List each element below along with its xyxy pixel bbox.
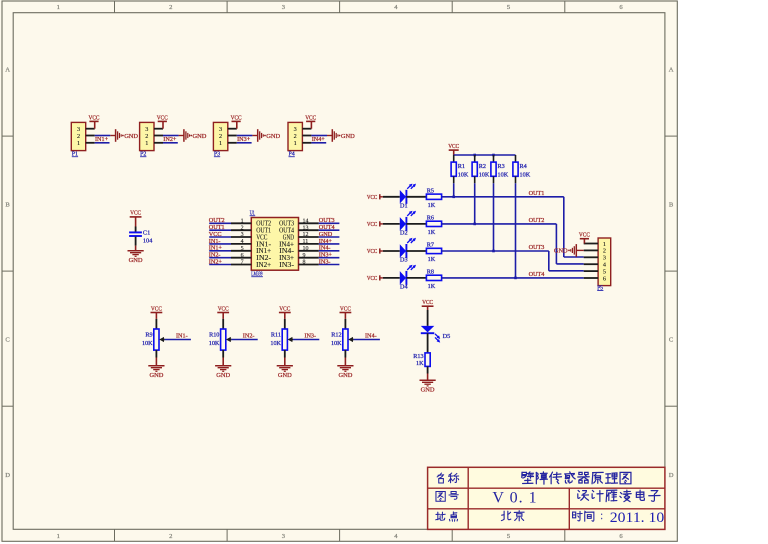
svg-text:OUT1: OUT1 — [529, 190, 545, 197]
wire VCC to R10 — [222, 313, 224, 330]
svg-text:GND: GND — [278, 372, 292, 379]
net label OUT3 — [529, 244, 545, 251]
junction R2 / OUT2 — [473, 223, 476, 226]
wire R13 to GND — [427, 366, 429, 380]
wire pin3 of P1 to VCC — [86, 121, 95, 128]
svg-text:2: 2 — [169, 4, 172, 11]
svg-text:VCC: VCC — [340, 305, 351, 312]
svg-text:VCC: VCC — [305, 114, 316, 121]
svg-text:B: B — [669, 202, 674, 209]
svg-text:3: 3 — [241, 232, 244, 238]
wire VCC rail — [454, 154, 516, 156]
wire VCC to C1 — [135, 217, 137, 232]
svg-text:1: 1 — [294, 140, 297, 147]
svg-text:R11: R11 — [271, 332, 281, 339]
svg-text:VCC: VCC — [367, 275, 377, 282]
wire net IN1- at U1 pin 4 — [209, 243, 231, 245]
net label IN2- — [209, 252, 221, 259]
wire OUT2 vertical to P5 pin4 — [556, 224, 583, 264]
svg-text:VCC: VCC — [422, 299, 433, 306]
svg-text:D: D — [5, 472, 10, 479]
svg-text:GND: GND — [129, 257, 143, 264]
net label IN3+ — [237, 136, 251, 143]
svg-text:IN4+: IN4+ — [312, 136, 326, 143]
power ground at P1 — [116, 129, 139, 142]
svg-text:R1: R1 — [458, 163, 465, 170]
svg-text:R2: R2 — [479, 163, 486, 170]
junction on rail at R3 — [492, 154, 495, 157]
svg-text:R9: R9 — [145, 332, 152, 339]
svg-text:10K: 10K — [142, 340, 153, 347]
wire VCC to D5 — [427, 306, 429, 326]
potentiometer R9 10K — [142, 329, 165, 350]
connector P2 — [140, 122, 154, 157]
svg-text:R6: R6 — [427, 215, 434, 222]
wire OUT4 to P5 pin6 — [583, 277, 585, 279]
svg-text:6: 6 — [241, 253, 244, 259]
svg-text:GND: GND — [216, 372, 230, 379]
svg-text:IN1-: IN1- — [176, 332, 188, 339]
svg-text:IN3-: IN3- — [319, 258, 331, 265]
svg-text:V 0. 1: V 0. 1 — [492, 490, 537, 507]
wire net OUT2 at U1 pin 1 — [209, 222, 231, 224]
connector P5 — [597, 238, 610, 291]
wire OUT1 vertical to P5 pin3 — [564, 197, 584, 257]
svg-text:VCC: VCC — [367, 248, 377, 255]
power VCC at D2 — [367, 221, 383, 228]
ground below C1 — [128, 251, 144, 264]
pin 4 of U1 — [231, 239, 251, 245]
wire net IN2+ at U1 pin 7 — [209, 264, 231, 266]
resistor R6 1K — [426, 215, 441, 236]
wire R12 to GND — [344, 350, 346, 366]
svg-text:2: 2 — [294, 133, 297, 140]
wire D3 to R7 — [406, 250, 426, 252]
svg-text:1K: 1K — [428, 202, 436, 209]
svg-text:2011. 10: 2011. 10 — [610, 510, 665, 526]
svg-text:1: 1 — [77, 140, 80, 147]
resistor R4 10K — [513, 162, 531, 178]
net label OUT1 — [529, 190, 545, 197]
LED D2 — [400, 211, 416, 237]
wire net OUT1 at U1 pin 2 — [209, 229, 231, 231]
svg-text:6: 6 — [603, 275, 606, 282]
svg-text:10K: 10K — [498, 171, 509, 178]
power VCC at D1 — [367, 194, 383, 201]
wire pin1 of P1 net IN1+ — [86, 142, 110, 144]
svg-text:VCC: VCC — [89, 114, 100, 121]
svg-text:C: C — [669, 337, 674, 344]
wire pin2 of P1 to GND — [86, 135, 116, 137]
wire pin2 of P3 to GND — [228, 135, 258, 137]
net label OUT2 — [209, 217, 225, 224]
svg-text:A: A — [669, 67, 674, 74]
pin 14 of U1 — [299, 218, 319, 224]
net label IN4+ — [319, 238, 333, 245]
svg-text:1: 1 — [57, 4, 60, 11]
wire pin1 of P3 net IN3+ — [228, 142, 252, 144]
wire rail to R4 — [515, 155, 517, 162]
power VCC at R9 — [151, 305, 163, 312]
svg-text:IN1+: IN1+ — [95, 136, 109, 143]
wire pin1 of P2 net IN2+ — [154, 142, 178, 144]
wire wiper of R11 net IN3- — [293, 339, 319, 341]
svg-text:GND: GND — [341, 133, 355, 140]
svg-text:GND: GND — [266, 133, 280, 140]
wire net IN4- at U1 pin 10 — [319, 250, 340, 252]
svg-text:1K: 1K — [428, 229, 436, 236]
title row3: 地点 / 北京 / 时间: 2011.10 — [436, 510, 665, 526]
net label IN4- — [319, 245, 331, 252]
svg-text:7: 7 — [241, 260, 244, 266]
svg-text:IN2+: IN2+ — [163, 136, 177, 143]
svg-text:IN3+: IN3+ — [237, 136, 251, 143]
power VCC at D4 — [367, 275, 383, 282]
svg-text:OUT3: OUT3 — [529, 244, 545, 251]
ground below R12 — [337, 366, 353, 379]
pin 1 of P5 — [584, 243, 598, 245]
svg-text:10K: 10K — [270, 340, 281, 347]
resistor R13 1K — [413, 353, 430, 367]
net label IN3- — [319, 258, 331, 265]
wire rail to R1 — [453, 155, 455, 162]
wire VCC to D3 — [383, 250, 400, 252]
power VCC at P3 — [231, 114, 242, 121]
power VCC at P2 — [157, 114, 168, 121]
svg-text:D: D — [669, 472, 674, 479]
svg-text:12: 12 — [303, 232, 309, 238]
wire net IN3+ at U1 pin 9 — [319, 257, 340, 259]
wire D2 to R6 — [406, 223, 426, 225]
title row2: 图号 / V 0.1 / 设计雁凌电子 — [436, 490, 660, 507]
power VCC at D3 — [367, 248, 383, 255]
net label IN1- — [176, 332, 188, 339]
svg-text:2: 2 — [241, 225, 244, 231]
net label IN2- — [243, 332, 255, 339]
svg-text:10K: 10K — [520, 171, 531, 178]
pin 10 of U1 — [299, 246, 319, 252]
ground below R9 — [148, 366, 164, 379]
svg-text:R10: R10 — [209, 332, 219, 339]
power ground at P2 — [184, 129, 207, 142]
wire rail to R3 — [493, 155, 495, 162]
wire R6 to OUT2 — [442, 223, 557, 225]
svg-text:R5: R5 — [427, 188, 434, 195]
pin 7 of U1 — [231, 260, 251, 266]
wire P5 pin2 to GND — [576, 249, 583, 251]
svg-text:IN2+: IN2+ — [256, 261, 271, 269]
net label IN1+ — [209, 245, 223, 252]
net label IN4+ — [312, 136, 326, 143]
ground below R11 — [277, 366, 293, 379]
wire pin2 of P4 to GND — [302, 135, 332, 137]
svg-text:8: 8 — [303, 260, 306, 266]
wire VCC to D1 — [383, 196, 400, 198]
junction on rail at R2 — [473, 154, 476, 157]
connector P1 — [71, 122, 85, 157]
pin 2 of U1 — [231, 225, 251, 231]
wire VCC to R11 — [284, 313, 286, 330]
svg-text:GND: GND — [338, 372, 352, 379]
potentiometer R12 10K — [331, 329, 354, 350]
svg-text:D3: D3 — [400, 257, 408, 264]
junction R1 / OUT1 — [452, 196, 455, 199]
wire R5 to OUT1 — [442, 196, 564, 198]
svg-text:10K: 10K — [209, 340, 220, 347]
resistor R8 1K — [426, 269, 441, 290]
svg-text:1: 1 — [219, 140, 222, 147]
wire R1 to OUT1 — [453, 176, 455, 197]
svg-text:9: 9 — [303, 253, 306, 259]
wire R2 to OUT2 — [474, 176, 476, 224]
svg-text:VCC: VCC — [218, 305, 229, 312]
svg-text:GND: GND — [421, 387, 435, 394]
svg-text:14: 14 — [303, 218, 309, 224]
svg-text:VCC: VCC — [130, 210, 141, 217]
svg-text:104: 104 — [143, 238, 153, 245]
svg-text:C: C — [5, 337, 10, 344]
svg-text:VCC: VCC — [448, 143, 459, 150]
resistor R7 1K — [426, 242, 441, 263]
svg-text:2: 2 — [145, 133, 148, 140]
svg-text:1: 1 — [145, 140, 148, 147]
wire pin3 of P3 to VCC — [228, 121, 237, 128]
wire pin3 of P4 to VCC — [302, 121, 311, 128]
resistor R2 10K — [472, 162, 490, 178]
power VCC at P5 pin1 — [579, 232, 590, 244]
wire pin2 of P2 to GND — [154, 135, 184, 137]
svg-text:10K: 10K — [331, 340, 342, 347]
capacitor C1 104 — [129, 230, 153, 245]
svg-text:D1: D1 — [400, 202, 408, 209]
wire wiper of R12 net IN4- — [354, 339, 380, 341]
pin 2 of P5 — [584, 249, 598, 251]
wire R9 to GND — [155, 350, 157, 366]
pin 8 of U1 — [299, 260, 319, 266]
wire R3 to OUT3 — [493, 176, 495, 251]
net label OUT2 — [529, 217, 545, 224]
resistor R1 10K — [451, 162, 469, 178]
svg-text:IN2-: IN2- — [243, 332, 255, 339]
connector P4 — [288, 122, 302, 157]
wire wiper of R10 net IN2- — [231, 339, 257, 341]
LED D4 — [400, 265, 416, 291]
pin 6 of U1 — [231, 253, 251, 259]
svg-text:VCC: VCC — [231, 114, 242, 121]
svg-text:GND: GND — [124, 133, 138, 140]
svg-text:13: 13 — [303, 225, 309, 231]
net label IN3- — [304, 332, 316, 339]
wire VCC to R9 — [155, 313, 157, 330]
svg-text:IN3-: IN3- — [304, 332, 316, 339]
wire net OUT4 at U1 pin 13 — [319, 229, 340, 231]
svg-text:D2: D2 — [400, 230, 408, 237]
net label IN2+ — [163, 136, 177, 143]
power VCC at D5 — [422, 299, 434, 306]
ground below R10 — [215, 366, 231, 379]
wire rail to R2 — [474, 155, 476, 162]
svg-text:1: 1 — [241, 218, 244, 224]
net label VCC — [209, 231, 222, 238]
svg-text:1K: 1K — [416, 360, 424, 367]
wire OUT3 to P5 pin5 — [549, 251, 584, 271]
svg-text:OUT2: OUT2 — [529, 217, 545, 224]
wire R7 to OUT3 — [442, 250, 549, 252]
power VCC at C1 — [130, 210, 142, 217]
pin 3 of U1 — [231, 232, 251, 238]
potentiometer R11 10K — [270, 329, 293, 350]
svg-text:GND: GND — [149, 372, 163, 379]
pin 6 of P5 — [584, 277, 598, 279]
svg-text:R8: R8 — [427, 269, 434, 276]
svg-text:IN4-: IN4- — [365, 332, 377, 339]
svg-text:B: B — [5, 202, 10, 209]
wire R4 to OUT4 — [515, 176, 517, 278]
net label IN4- — [365, 332, 377, 339]
net label GND — [319, 231, 333, 238]
net label IN2+ — [209, 258, 223, 265]
power VCC above R1-R4 — [448, 143, 459, 155]
svg-text:R7: R7 — [427, 242, 434, 249]
title block frame — [428, 467, 665, 529]
svg-text:R12: R12 — [331, 332, 341, 339]
svg-text:1K: 1K — [428, 256, 436, 263]
wire D1 to R5 — [406, 196, 426, 198]
power VCC at P4 — [305, 114, 316, 121]
wire D5 to R13 — [427, 333, 429, 353]
power ground at P4 — [332, 129, 355, 142]
svg-text:11: 11 — [303, 239, 309, 245]
connector P3 — [213, 122, 227, 157]
power VCC at R12 — [340, 305, 352, 312]
wire VCC to D4 — [383, 277, 400, 279]
power VCC at R10 — [217, 305, 229, 312]
pin 3 of P5 — [584, 256, 598, 258]
svg-text:GND: GND — [554, 248, 568, 255]
pin 12 of U1 — [299, 232, 319, 238]
svg-text:4: 4 — [241, 239, 244, 245]
wire net IN4+ at U1 pin 11 — [319, 243, 340, 245]
wire net IN1+ at U1 pin 5 — [209, 250, 231, 252]
svg-text:10K: 10K — [458, 171, 469, 178]
wire wiper of R9 net IN1- — [165, 339, 191, 341]
svg-text:D5: D5 — [443, 333, 451, 340]
wire net VCC at U1 pin 3 — [209, 236, 231, 238]
pin 11 of U1 — [299, 239, 319, 245]
power ground at P3 — [258, 129, 281, 142]
net label OUT3 — [319, 217, 335, 224]
junction R4 / OUT4 — [514, 277, 517, 280]
svg-text:1K: 1K — [428, 283, 436, 290]
LED D5 — [421, 326, 451, 343]
net label OUT1 — [209, 224, 225, 231]
svg-text:C1: C1 — [143, 230, 150, 237]
svg-text:VCC: VCC — [151, 305, 162, 312]
svg-text:10: 10 — [303, 246, 309, 252]
power VCC at R11 — [279, 305, 291, 312]
ground below R13 — [420, 380, 436, 393]
wire VCC to D2 — [383, 223, 400, 225]
pin 13 of U1 — [299, 225, 319, 231]
potentiometer R10 10K — [209, 329, 232, 350]
svg-text:R3: R3 — [498, 163, 505, 170]
LED D3 — [400, 238, 416, 264]
svg-text:2: 2 — [169, 533, 172, 540]
wire D4 to R8 — [406, 277, 426, 279]
svg-text:GND: GND — [193, 133, 207, 140]
svg-text:VCC: VCC — [367, 221, 377, 228]
pin 5 of P5 — [584, 270, 598, 272]
svg-text:A: A — [5, 67, 10, 74]
svg-text:R4: R4 — [520, 163, 527, 170]
wire net IN3- at U1 pin 8 — [319, 264, 340, 266]
svg-text:OUT4: OUT4 — [529, 271, 545, 278]
svg-text:2: 2 — [77, 133, 80, 140]
wire C1 to GND — [135, 237, 137, 251]
wire R10 to GND — [222, 350, 224, 366]
junction R3 / OUT3 — [492, 250, 495, 253]
resistor R5 1K — [426, 188, 441, 209]
power ground at P5 pin2 — [554, 244, 576, 257]
wire R8 to OUT4 — [442, 277, 584, 279]
power VCC at P1 — [89, 114, 100, 121]
net label OUT4 — [319, 224, 335, 231]
svg-text:5: 5 — [241, 246, 244, 252]
net label IN1+ — [95, 136, 109, 143]
pin 4 of P5 — [584, 263, 598, 265]
svg-text:VCC: VCC — [367, 194, 377, 201]
wire net OUT3 at U1 pin 14 — [319, 222, 340, 224]
wire pin1 of P4 net IN4+ — [302, 142, 326, 144]
svg-text:10K: 10K — [479, 171, 490, 178]
svg-text:D4: D4 — [400, 284, 409, 291]
svg-text:VCC: VCC — [279, 305, 290, 312]
wire VCC to R12 — [344, 313, 346, 330]
wire pin3 of P2 to VCC — [154, 121, 163, 128]
resistor R3 10K — [491, 162, 509, 178]
wire R11 to GND — [284, 350, 286, 366]
op-amp U1 LM339 body — [250, 210, 299, 278]
wire net IN2- at U1 pin 6 — [209, 257, 231, 259]
net label IN1- — [209, 238, 221, 245]
net label OUT4 — [529, 271, 545, 278]
pin 5 of U1 — [231, 246, 251, 252]
svg-text:VCC: VCC — [157, 114, 168, 121]
title row1: 名称 / 壁障传感器原理图 — [437, 472, 631, 484]
svg-text:IN2+: IN2+ — [209, 258, 223, 265]
net label IN3+ — [319, 252, 333, 259]
LED D1 — [400, 184, 416, 210]
pin 1 of U1 — [231, 218, 251, 224]
svg-text:2: 2 — [219, 133, 222, 140]
wire net GND at U1 pin 12 — [319, 236, 340, 238]
pin 9 of U1 — [299, 253, 319, 259]
svg-text:1: 1 — [57, 533, 60, 540]
svg-text:VCC: VCC — [579, 232, 590, 239]
svg-text:IN3-: IN3- — [279, 261, 295, 269]
